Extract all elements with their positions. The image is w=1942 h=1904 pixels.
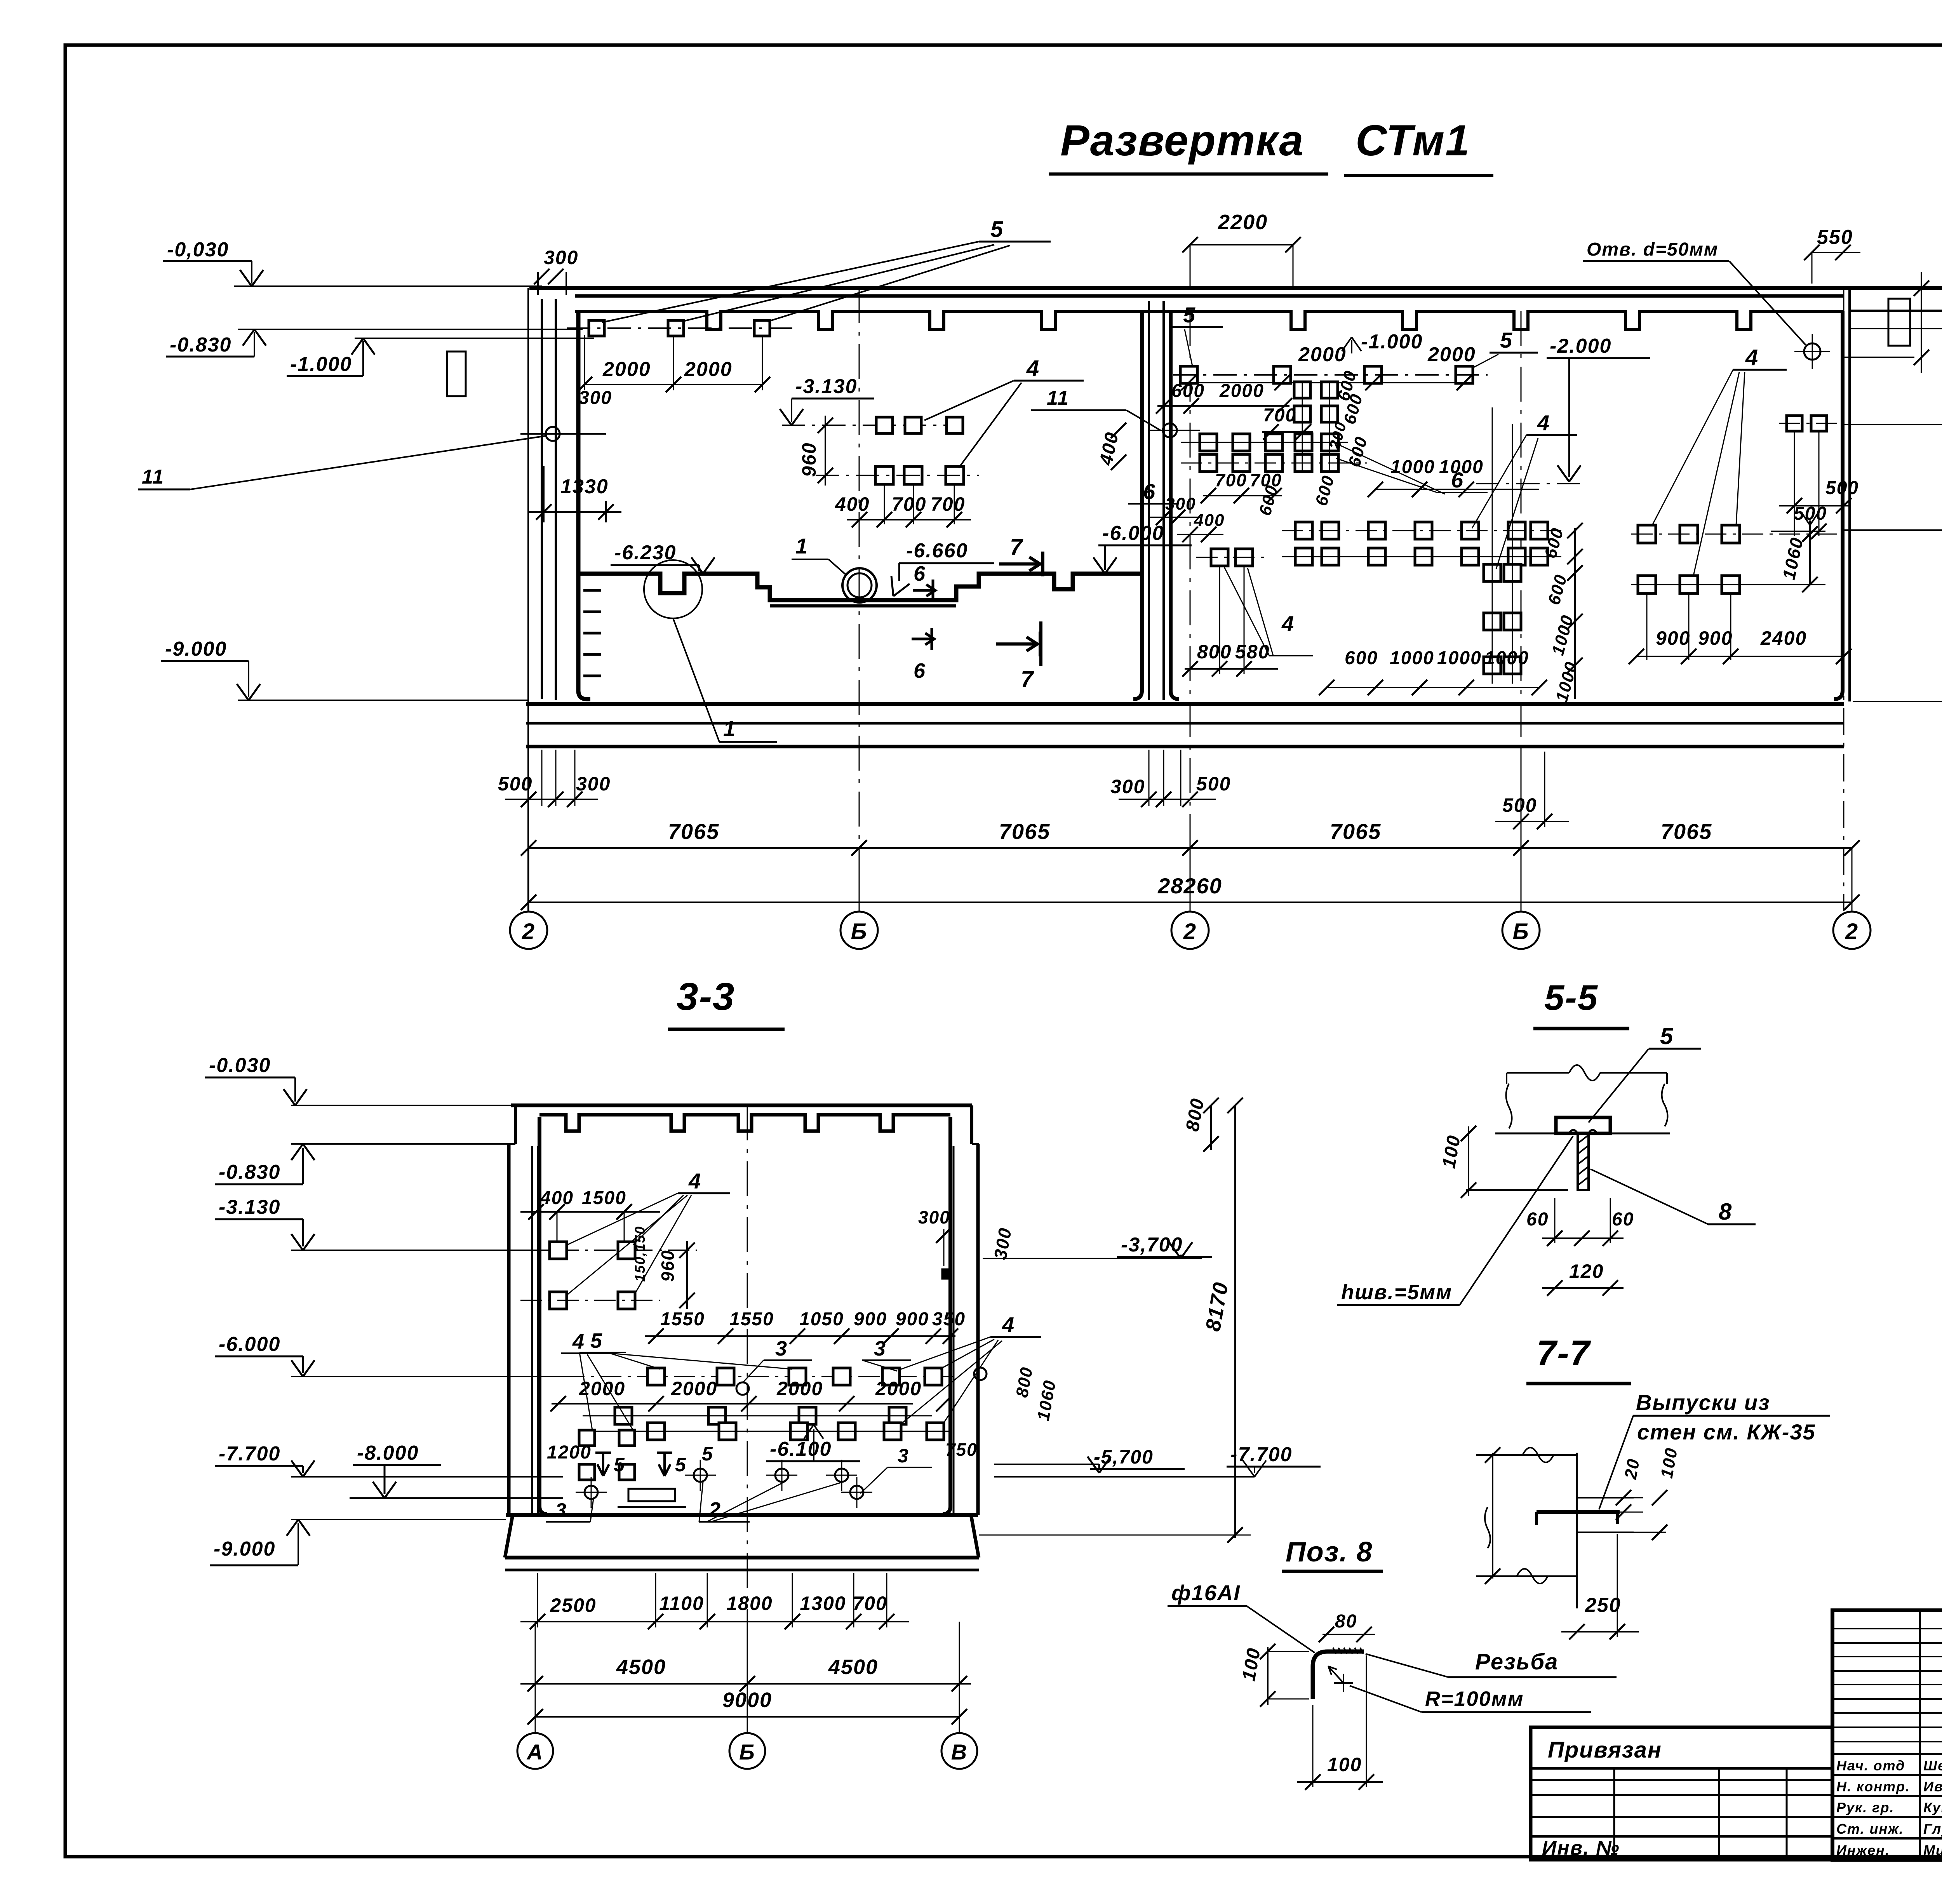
svg-text:-6.100: -6.100 bbox=[770, 1438, 832, 1460]
svg-text:1550: 1550 bbox=[660, 1309, 705, 1330]
svg-text:5: 5 bbox=[1500, 328, 1513, 352]
svg-text:-9.000: -9.000 bbox=[165, 638, 227, 660]
svg-text:900: 900 bbox=[1656, 627, 1690, 649]
svg-text:120: 120 bbox=[1569, 1260, 1604, 1282]
left extension line bbox=[527, 288, 529, 911]
svg-text:2: 2 bbox=[522, 919, 535, 944]
3-3 bottom hatch block bbox=[628, 1489, 675, 1501]
svg-text:1500: 1500 bbox=[582, 1188, 626, 1208]
svg-text:5: 5 bbox=[614, 1454, 625, 1476]
left outer wall lines bbox=[541, 299, 543, 699]
svg-text:-6.000: -6.000 bbox=[1102, 522, 1164, 545]
parapet vent rect right bbox=[1888, 299, 1910, 346]
svg-text:Иванов: Иванов bbox=[1923, 1779, 1942, 1794]
svg-text:R=100мм: R=100мм bbox=[1425, 1687, 1524, 1711]
svg-text:300: 300 bbox=[576, 773, 611, 795]
roof slab top edge bbox=[529, 286, 1942, 290]
right parapet extension bbox=[1850, 287, 1942, 289]
left room inner wall face bbox=[578, 311, 590, 699]
detail 1 circle around floor notch bbox=[644, 560, 702, 618]
svg-text:150,150: 150,150 bbox=[632, 1226, 648, 1282]
svg-text:Выпуски из: Выпуски из bbox=[1636, 1390, 1770, 1415]
svg-text:Отв. d=50мм: Отв. d=50мм bbox=[1587, 239, 1718, 260]
pump pipe circle 1 bbox=[842, 568, 877, 602]
svg-text:7: 7 bbox=[1021, 667, 1034, 692]
svg-text:960: 960 bbox=[798, 442, 820, 477]
svg-text:60: 60 bbox=[1526, 1209, 1549, 1230]
svg-text:-5,700: -5,700 bbox=[1094, 1446, 1154, 1468]
svg-text:700: 700 bbox=[1215, 470, 1247, 490]
right parapet vertical dim bbox=[1921, 272, 1922, 373]
top elevation: level line -0.030 bbox=[234, 285, 542, 287]
svg-text:2000: 2000 bbox=[671, 1378, 717, 1399]
svg-text:Развертка: Развертка bbox=[1060, 116, 1304, 165]
svg-text:Привязан: Привязан bbox=[1548, 1737, 1662, 1763]
svg-text:1800: 1800 bbox=[726, 1592, 773, 1614]
svg-text:Б: Б bbox=[1512, 919, 1529, 944]
svg-text:-3.130: -3.130 bbox=[795, 375, 857, 398]
hole circle bbox=[1804, 343, 1820, 360]
right axis 2 extension bbox=[1843, 288, 1845, 911]
svg-text:100: 100 bbox=[1327, 1754, 1362, 1775]
svg-text:900: 900 bbox=[1698, 627, 1733, 649]
svg-text:1200: 1200 bbox=[547, 1442, 592, 1463]
svg-text:7065: 7065 bbox=[999, 819, 1051, 844]
svg-text:-0.830: -0.830 bbox=[219, 1161, 280, 1183]
svg-text:-6.660: -6.660 bbox=[906, 540, 968, 562]
svg-text:4: 4 bbox=[1026, 356, 1040, 381]
svg-text:-6.230: -6.230 bbox=[614, 541, 676, 564]
svg-text:4: 4 bbox=[1745, 345, 1759, 370]
svg-text:Н. контр.: Н. контр. bbox=[1836, 1779, 1910, 1794]
7-7 slab lines bbox=[1577, 1497, 1634, 1498]
svg-text:6: 6 bbox=[914, 659, 926, 682]
svg-text:300: 300 bbox=[918, 1207, 950, 1227]
svg-text:550: 550 bbox=[1817, 226, 1853, 249]
svg-text:4: 4 bbox=[572, 1330, 585, 1353]
svg-text:3: 3 bbox=[874, 1337, 886, 1360]
level line -0.830 bbox=[238, 329, 583, 330]
svg-text:5: 5 bbox=[990, 217, 1004, 242]
section marker 6 bottom bbox=[912, 628, 934, 650]
svg-text:700: 700 bbox=[931, 493, 965, 515]
svg-text:2000: 2000 bbox=[684, 358, 733, 381]
svg-text:1300: 1300 bbox=[800, 1592, 846, 1614]
axis line Б left bbox=[859, 288, 860, 911]
svg-text:3-3: 3-3 bbox=[677, 975, 735, 1018]
3-3 anchor down-arrows 5 bbox=[595, 1453, 611, 1476]
signature table bbox=[1832, 1610, 1942, 1860]
svg-text:7-7: 7-7 bbox=[1537, 1333, 1591, 1373]
embed group 4 (2 rows of 3) bbox=[876, 417, 893, 433]
svg-text:700: 700 bbox=[853, 1592, 887, 1614]
Поз.8 radius cross bbox=[1334, 1682, 1353, 1684]
svg-text:5: 5 bbox=[1183, 303, 1196, 327]
svg-text:3: 3 bbox=[898, 1445, 909, 1467]
dim 28260 bbox=[529, 902, 1852, 903]
svg-text:5: 5 bbox=[1660, 1023, 1674, 1049]
svg-text:Нач. отд: Нач. отд bbox=[1836, 1758, 1905, 1773]
right parapet level line bbox=[1844, 357, 1914, 358]
Поз.8 bent bar bbox=[1313, 1652, 1364, 1699]
svg-text:2500: 2500 bbox=[550, 1594, 596, 1616]
3-3 lower embed rows bbox=[615, 1407, 632, 1424]
svg-text:-1.000: -1.000 bbox=[290, 353, 352, 376]
3-3 embed cluster lower-left bbox=[579, 1430, 595, 1446]
svg-text:-7.700: -7.700 bbox=[1230, 1443, 1292, 1466]
svg-text:20: 20 bbox=[1621, 1457, 1643, 1481]
vent block rectangle left bbox=[447, 352, 466, 396]
svg-text:3: 3 bbox=[775, 1337, 788, 1360]
svg-text:-6.000: -6.000 bbox=[219, 1333, 280, 1356]
5-5 weld marks bbox=[1569, 1130, 1597, 1133]
svg-text:6: 6 bbox=[914, 562, 926, 585]
svg-text:7065: 7065 bbox=[1661, 819, 1712, 844]
bottom dim chains bbox=[541, 750, 543, 806]
svg-text:Инжен.: Инжен. bbox=[1836, 1842, 1890, 1858]
svg-text:500: 500 bbox=[1502, 794, 1537, 816]
5-5 top break line bbox=[1507, 1065, 1667, 1081]
svg-text:Шейко: Шейко bbox=[1923, 1758, 1942, 1773]
3-3 collar right bbox=[970, 1105, 973, 1144]
3-3 level -3.700 right bbox=[983, 1258, 1202, 1259]
svg-text:2: 2 bbox=[1845, 919, 1858, 944]
svg-text:Ст. инж.: Ст. инж. bbox=[1836, 1821, 1904, 1837]
svg-text:Мирошникова: Мирошникова bbox=[1923, 1842, 1942, 1858]
svg-text:1000: 1000 bbox=[1390, 457, 1435, 477]
central embed grid rows bbox=[1294, 382, 1310, 398]
svg-text:1050: 1050 bbox=[799, 1309, 844, 1330]
svg-text:5: 5 bbox=[675, 1454, 687, 1476]
right embed cluster 4 (3x2) bbox=[1638, 525, 1656, 543]
section marker 7 bottom bbox=[996, 621, 1041, 666]
embed pair left of mid wall with label 4 bbox=[1211, 549, 1228, 566]
svg-text:-2.000: -2.000 bbox=[1550, 335, 1611, 357]
svg-text:1: 1 bbox=[795, 534, 808, 558]
svg-text:5-5: 5-5 bbox=[1544, 978, 1598, 1018]
svg-text:400: 400 bbox=[1194, 511, 1225, 530]
svg-text:6: 6 bbox=[1451, 468, 1464, 492]
svg-text:300: 300 bbox=[544, 247, 578, 268]
svg-text:СТм1: СТм1 bbox=[1356, 116, 1470, 165]
3-3 right wall bbox=[976, 1144, 980, 1515]
svg-text:-0.030: -0.030 bbox=[209, 1054, 271, 1077]
svg-text:-8.000: -8.000 bbox=[357, 1442, 419, 1464]
svg-text:11: 11 bbox=[142, 466, 164, 488]
7-7 left dim with breaks bbox=[1492, 1453, 1493, 1579]
svg-text:Глуменко: Глуменко bbox=[1923, 1821, 1942, 1837]
level line -1.000 bbox=[355, 338, 594, 339]
svg-text:11: 11 bbox=[1047, 387, 1069, 409]
svg-text:250: 250 bbox=[1585, 1594, 1621, 1617]
svg-text:1000: 1000 bbox=[1437, 648, 1482, 668]
roof slab second edge bbox=[575, 294, 1843, 298]
svg-text:580: 580 bbox=[1235, 641, 1270, 663]
Привязан annex table bbox=[1531, 1727, 1832, 1860]
svg-text:500: 500 bbox=[1196, 773, 1231, 795]
3-3 embed row upper (400 1500) bbox=[520, 1250, 697, 1251]
svg-text:5: 5 bbox=[702, 1443, 713, 1465]
axis line mid (2) bbox=[1190, 311, 1191, 911]
svg-text:1330: 1330 bbox=[560, 475, 609, 498]
svg-text:700: 700 bbox=[1263, 405, 1296, 426]
svg-text:-7.700: -7.700 bbox=[219, 1443, 280, 1465]
5-5 concrete surface line bbox=[1495, 1133, 1670, 1135]
svg-text:900: 900 bbox=[854, 1309, 887, 1330]
axis line Б right bbox=[1521, 311, 1522, 911]
svg-text:В: В bbox=[951, 1740, 968, 1764]
svg-text:-3.130: -3.130 bbox=[219, 1196, 280, 1218]
svg-text:-3,700: -3,700 bbox=[1121, 1234, 1183, 1256]
svg-text:2000: 2000 bbox=[602, 358, 651, 381]
svg-text:2000: 2000 bbox=[1427, 343, 1476, 366]
svg-text:4500: 4500 bbox=[828, 1655, 878, 1679]
3-3 level -0.030 bbox=[291, 1105, 511, 1106]
roof slab bottom edge with formwork teeth bbox=[575, 312, 1843, 329]
3-3 collar left bbox=[514, 1105, 517, 1144]
svg-text:4: 4 bbox=[1537, 411, 1550, 435]
svg-text:4: 4 bbox=[1281, 611, 1295, 636]
7-7 wall edge verticals bbox=[1576, 1453, 1578, 1608]
svg-text:80: 80 bbox=[1335, 1611, 1357, 1632]
svg-text:2200: 2200 bbox=[1218, 211, 1268, 234]
Поз.8 thread hatch bbox=[1333, 1648, 1336, 1654]
svg-text:-1.000: -1.000 bbox=[1361, 331, 1423, 353]
svg-text:400: 400 bbox=[835, 493, 870, 515]
svg-text:Кунцевич: Кунцевич bbox=[1923, 1800, 1942, 1815]
svg-text:5: 5 bbox=[590, 1329, 603, 1352]
embed circle 11 on left wall bbox=[546, 427, 560, 441]
svg-text:7065: 7065 bbox=[1330, 819, 1382, 844]
svg-text:400: 400 bbox=[540, 1188, 574, 1208]
svg-text:700: 700 bbox=[892, 493, 926, 515]
svg-text:1000: 1000 bbox=[1390, 648, 1434, 668]
level -9.000 bbox=[238, 700, 529, 701]
svg-text:4: 4 bbox=[688, 1169, 701, 1193]
svg-text:750: 750 bbox=[945, 1439, 978, 1460]
svg-text:800: 800 bbox=[1197, 641, 1232, 663]
3-3 axis circles А Б В bbox=[535, 1622, 536, 1733]
svg-text:300: 300 bbox=[579, 388, 612, 408]
svg-text:2000: 2000 bbox=[1298, 343, 1347, 366]
right wall of right room bbox=[1834, 311, 1843, 699]
svg-text:Резьба: Резьба bbox=[1475, 1649, 1558, 1674]
embed plates row A with label 5 bbox=[589, 320, 604, 336]
svg-text:-9.000: -9.000 bbox=[214, 1538, 275, 1560]
ladder rungs on left wall bbox=[583, 589, 601, 592]
svg-text:1550: 1550 bbox=[729, 1309, 774, 1330]
left room floor profile (-6.230 / -6.660 / -6.000) bbox=[578, 574, 1142, 600]
svg-text:4500: 4500 bbox=[616, 1655, 666, 1679]
svg-text:-0.830: -0.830 bbox=[170, 334, 231, 356]
svg-text:1000: 1000 bbox=[1484, 648, 1529, 668]
7-7 angle plate bbox=[1537, 1510, 1620, 1514]
base slab bbox=[526, 702, 1844, 706]
3-3 roof slab bbox=[511, 1103, 972, 1107]
3-3 level -7.700 right bbox=[994, 1476, 1255, 1478]
svg-text:300: 300 bbox=[1110, 776, 1145, 797]
embed circle 11 on mid wall bbox=[1163, 423, 1177, 437]
svg-text:Инв. №: Инв. № bbox=[1542, 1837, 1620, 1859]
svg-text:-0,030: -0,030 bbox=[167, 238, 229, 261]
axis circles 2 Б 2 Б 2 bbox=[510, 912, 547, 949]
svg-text:А: А bbox=[526, 1740, 543, 1764]
embed row 5 mid (-1.000) bbox=[1180, 366, 1197, 383]
svg-text:960: 960 bbox=[658, 1250, 678, 1282]
svg-text:2000: 2000 bbox=[1219, 381, 1264, 401]
svg-text:2000: 2000 bbox=[875, 1378, 922, 1399]
svg-text:Поз. 8: Поз. 8 bbox=[1286, 1537, 1373, 1568]
5-5 anchor bolt hatched bbox=[1578, 1133, 1589, 1190]
svg-text:Рук. гр.: Рук. гр. bbox=[1836, 1800, 1895, 1815]
svg-text:1: 1 bbox=[723, 716, 736, 741]
svg-text:Б: Б bbox=[739, 1740, 755, 1764]
3-3 circles row 3 bbox=[694, 1469, 707, 1482]
svg-text:ф16АІ: ф16АІ bbox=[1171, 1580, 1241, 1605]
svg-text:стен см. КЖ-35: стен см. КЖ-35 bbox=[1637, 1420, 1816, 1444]
svg-text:3: 3 bbox=[555, 1499, 567, 1521]
svg-text:4: 4 bbox=[1002, 1312, 1015, 1337]
svg-text:900: 900 bbox=[896, 1309, 929, 1330]
5-5 anchor plate bbox=[1556, 1117, 1610, 1133]
3-3 left wall bbox=[507, 1144, 511, 1515]
dim row 7065 x4 bbox=[529, 847, 1852, 849]
svg-text:hшв.=5мм: hшв.=5мм bbox=[1341, 1281, 1452, 1304]
svg-text:7065: 7065 bbox=[668, 819, 720, 844]
svg-text:350: 350 bbox=[932, 1309, 966, 1330]
3-3 level -0.830 bbox=[291, 1143, 509, 1145]
svg-text:Б: Б bbox=[851, 919, 867, 944]
svg-text:7: 7 bbox=[1010, 534, 1023, 560]
svg-text:500: 500 bbox=[498, 773, 532, 795]
middle wall between rooms bbox=[1133, 311, 1142, 699]
3-3 base slab bbox=[505, 1515, 979, 1558]
svg-text:8: 8 bbox=[1719, 1199, 1732, 1225]
embed pairs below center bbox=[1484, 564, 1501, 581]
svg-text:600: 600 bbox=[1345, 648, 1378, 668]
svg-text:1100: 1100 bbox=[659, 1592, 704, 1614]
svg-text:60: 60 bbox=[1612, 1209, 1634, 1230]
svg-text:2400: 2400 bbox=[1760, 627, 1807, 649]
embed pair near right wall with 4 bbox=[1787, 416, 1802, 431]
svg-text:2000: 2000 bbox=[776, 1378, 823, 1399]
3-3 mid circles bbox=[736, 1382, 749, 1395]
svg-text:2: 2 bbox=[1183, 919, 1197, 944]
3-3 mid embed row bbox=[563, 1376, 955, 1377]
